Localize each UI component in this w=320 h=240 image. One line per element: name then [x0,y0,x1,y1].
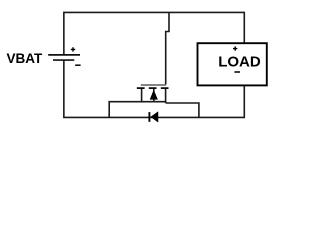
battery plus sign [71,47,75,51]
wire left rail lower (battery bottom lead) [63,60,65,117]
svg-text:VBAT: VBAT [7,51,44,66]
svg-text:LOAD: LOAD [218,53,261,70]
battery plate negative (short) [53,59,74,61]
battery VBAT [48,47,80,65]
transistor Q1 (NMOS) [137,85,169,99]
channel dash body [149,87,157,89]
diode D1 (body diode) [149,112,158,122]
battery plate positive (long) [48,54,80,56]
channel dash drain [161,87,169,89]
wire bottom rail [63,116,245,118]
wire load top lead [243,12,245,43]
wire top rail [64,11,245,13]
battery minus sign [75,64,80,66]
diode cathode bar [148,112,150,122]
wire gate to top rail (with jog) [166,12,169,84]
channel dash source [137,87,145,89]
wire source-body net to bottom rail (left of diode) [109,88,166,117]
gate plate [141,84,166,86]
diode triangle [151,112,158,122]
wire left rail upper (battery top lead) [63,12,65,55]
body arrow [150,90,157,99]
wire drain net to bottom rail (right of diode) [166,88,199,117]
load minus sign [234,71,240,73]
load box U1 [198,43,267,85]
wire load bottom lead [243,85,245,117]
load plus sign [233,46,237,50]
